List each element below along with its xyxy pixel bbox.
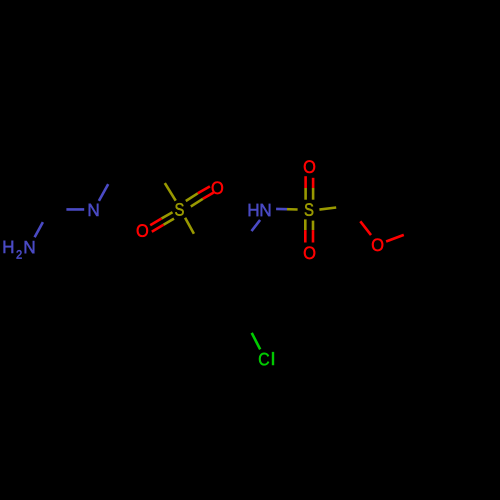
- chlorine Cl label: [259, 352, 274, 365]
- sulfonamide HN label: [249, 204, 271, 216]
- wire S1-aryl (S half): [185, 218, 194, 234]
- double bond S2=O2b line1: [304, 219, 307, 230]
- double bond S1=O1b line2: [164, 219, 175, 225]
- sulfonyl S1 label: [175, 203, 183, 216]
- wire S2-furanC2 (S half): [319, 208, 336, 210]
- double bond S2=O2b line2: [312, 221, 315, 231]
- wire O3-furanC5 (O half): [386, 235, 404, 242]
- wire Cl-aryl (Cl half): [252, 333, 261, 350]
- double bond S1=O1b line1: [162, 212, 173, 218]
- wire C1-N1 (N half): [66, 208, 84, 211]
- oxygen O2a label: [304, 160, 315, 173]
- wire N1-C2 (N half): [99, 184, 108, 201]
- wire O3-furanC2 (O half): [360, 221, 371, 235]
- oxygen O2b label: [304, 247, 315, 260]
- double bond S1=O1a line2: [191, 199, 203, 207]
- double bond S1=O1a line1: [186, 193, 198, 201]
- double bond S2=O2a line2: [312, 188, 315, 200]
- sulfonyl S2 label: [305, 203, 313, 216]
- oxygen O1b label: [137, 224, 148, 237]
- wire S1-CH3 (S half): [165, 183, 176, 201]
- wire HN-S2 (N half): [276, 208, 287, 211]
- wire H2N-C1 (N half): [35, 222, 43, 237]
- furan oxygen O3 label: [372, 239, 383, 252]
- amine N1 label: [89, 204, 99, 216]
- double bond S2=O2a line1: [304, 188, 307, 200]
- wire HN-S2 (S half): [287, 208, 298, 211]
- oxygen O1a label: [212, 182, 223, 195]
- wire HN-aryl (N half): [252, 220, 261, 231]
- amine group H2N label: [4, 241, 35, 259]
